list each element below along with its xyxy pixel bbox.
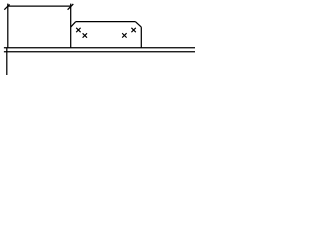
weld mark x1 <box>77 28 81 32</box>
right extension line / part left edge <box>70 4 72 48</box>
base plate top surface line <box>4 47 195 49</box>
dimension line <box>8 5 71 7</box>
part right edge <box>140 27 142 48</box>
weld mark x3 <box>123 34 127 38</box>
base plate left edge <box>6 48 8 75</box>
weld mark x4 <box>132 28 136 32</box>
left dimension tick <box>4 4 9 9</box>
right dimension tick <box>68 4 74 10</box>
part top edge <box>76 21 136 23</box>
part top-left chamfer <box>71 22 76 28</box>
left extension line <box>7 4 9 48</box>
part top-right chamfer <box>135 22 141 28</box>
base plate second surface line <box>4 51 195 53</box>
weld mark x2 <box>83 34 87 38</box>
